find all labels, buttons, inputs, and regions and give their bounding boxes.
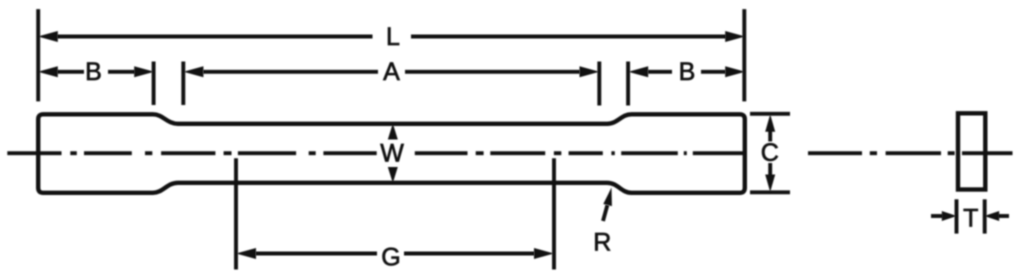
svg-text:B: B (85, 58, 102, 86)
svg-text:G: G (381, 244, 400, 272)
svg-text:C: C (761, 139, 779, 167)
svg-text:A: A (383, 58, 400, 86)
svg-text:T: T (963, 205, 978, 233)
svg-text:B: B (679, 58, 696, 86)
svg-text:L: L (386, 23, 400, 51)
svg-text:W: W (380, 140, 404, 168)
svg-text:R: R (593, 229, 611, 257)
